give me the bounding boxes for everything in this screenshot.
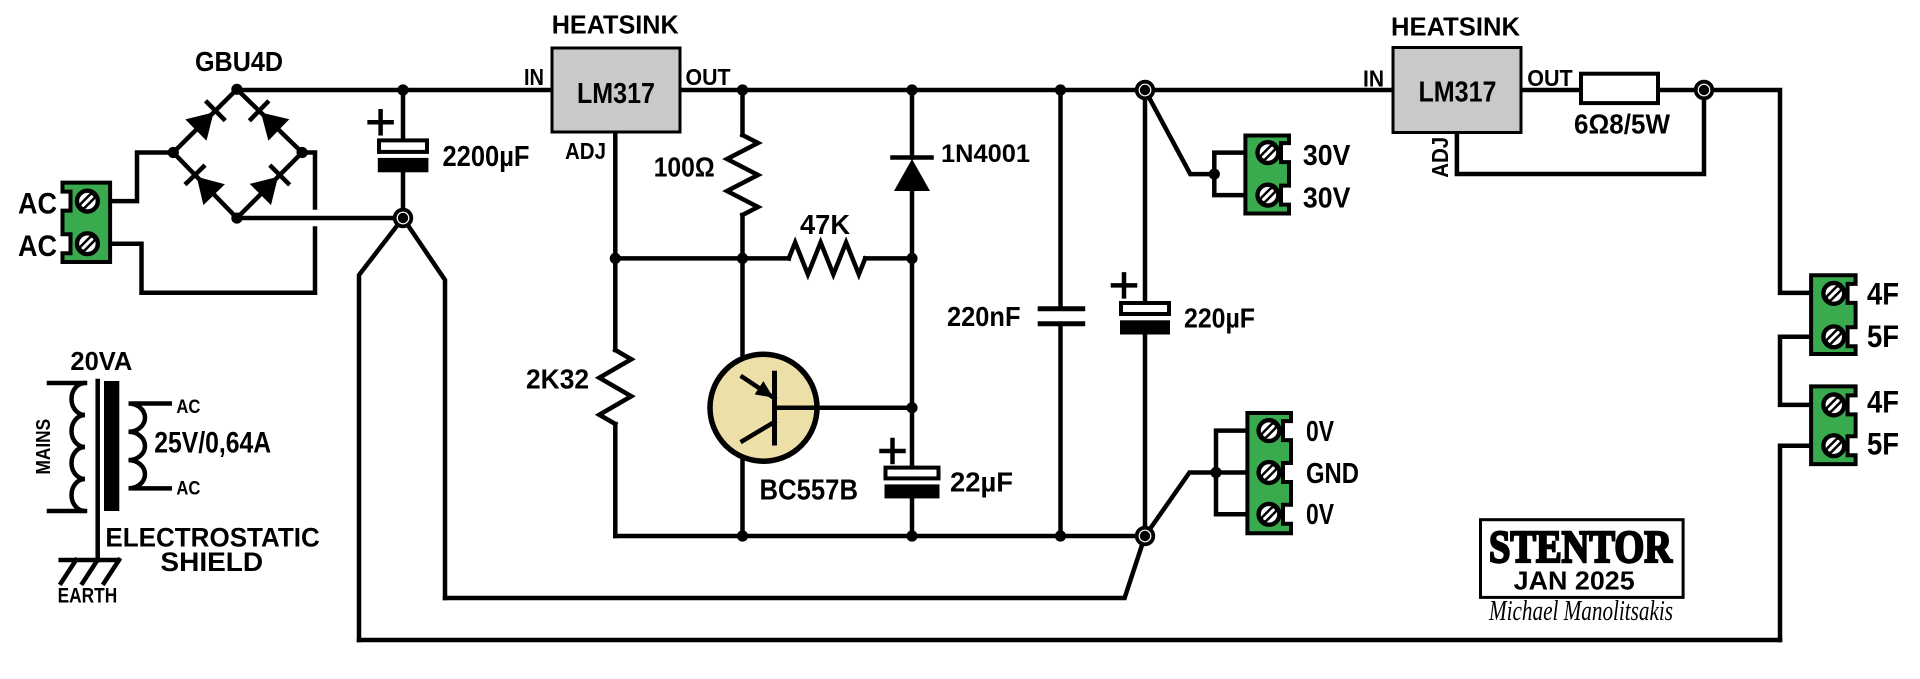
wire: 220nF bottom lead (1058, 326, 1063, 536)
signature Michael Manolitsakis (1488, 596, 1673, 627)
capacitor C4 220µF plates (1120, 303, 1170, 335)
svg-text:4F: 4F (1867, 276, 1899, 312)
title box frame (1481, 520, 1684, 598)
op-amp U1 LM317 body (552, 48, 680, 132)
svg-text:4F: 4F (1867, 383, 1899, 419)
svg-text:GND: GND (1306, 458, 1359, 490)
svg-text:IN: IN (524, 64, 544, 90)
terminal block J3 (0V/GND/0V) (1247, 413, 1291, 533)
capacitor C2 22µF plates (885, 468, 940, 499)
node: bus tap 2200µF (397, 84, 408, 95)
label 4F (J5) (1867, 383, 1899, 419)
svg-text:2K32: 2K32 (526, 364, 589, 395)
node: Q1 base junction (906, 402, 917, 413)
wire: 47K right lead to diode node (865, 256, 912, 261)
wire: Q1 collector drop to ground rail (740, 441, 745, 536)
label GND (1306, 458, 1359, 490)
svg-text:5F: 5F (1867, 425, 1899, 461)
label 47K (800, 209, 850, 240)
label 22µF (950, 467, 1013, 498)
label 220nF (947, 301, 1021, 332)
svg-text:AC: AC (18, 188, 57, 221)
wire: 100Ω top lead (740, 90, 745, 135)
svg-text:220µF: 220µF (1184, 303, 1255, 334)
label HEATSINK (U1) (552, 12, 680, 40)
svg-text:HEATSINK: HEATSINK (552, 12, 680, 40)
svg-text:6Ω8/5W: 6Ω8/5W (1574, 109, 1670, 140)
svg-text:2200µF: 2200µF (443, 141, 530, 173)
svg-text:1N4001: 1N4001 (941, 140, 1030, 168)
node: Q1 collector at ground rail (737, 530, 748, 541)
svg-text:LM317: LM317 (1419, 77, 1497, 109)
transformer T1 primary winding (49, 383, 85, 511)
capacitor C1 2200µF plates (378, 140, 429, 172)
wire: 1N4001 top lead (910, 90, 915, 158)
wire: main V+ bus (bridge output to U1 IN) (237, 88, 552, 93)
svg-text:HEATSINK: HEATSINK (1391, 14, 1521, 42)
transistor Q1 collector lead (743, 422, 775, 441)
capacitor C3 220nF plates (1038, 309, 1086, 324)
label 2200µF (443, 141, 530, 173)
svg-text:30V: 30V (1303, 140, 1351, 172)
label EARTH (58, 585, 118, 608)
transformer T1 secondary winding (129, 404, 170, 489)
label GBU4D (195, 46, 283, 77)
wire: Q1 base node to 22µF top (910, 408, 915, 468)
svg-text:AC: AC (18, 230, 57, 263)
wire: U1 ADJ pin drop (613, 132, 618, 258)
transistor Q1 BC557B body (710, 354, 817, 461)
capacitor C2 22µF plus sign (882, 440, 904, 462)
capacitor C1 2200µF plus sign (370, 111, 392, 133)
label SHIELD (160, 547, 263, 577)
node: 22µF at ground rail (906, 530, 917, 541)
svg-text:EARTH: EARTH (58, 585, 118, 608)
svg-text:STENTOR: STENTOR (1489, 521, 1673, 572)
svg-text:IN: IN (1363, 66, 1384, 92)
wire: diode node down to Q1 base node (910, 258, 915, 407)
svg-text:220nF: 220nF (947, 301, 1021, 332)
node: ADJ rail left junction (610, 253, 621, 264)
wire: 220µF bottom lead (1143, 335, 1148, 537)
node: GND bracket junction (1210, 467, 1221, 478)
label AC (bottom) (18, 230, 57, 263)
node: 220nF at ground rail (1055, 530, 1066, 541)
wire: 6Ω8 resistor to output node (1655, 88, 1704, 93)
wire: 2K32 top lead (613, 258, 618, 350)
wire: AC bottom riser above hop (302, 153, 315, 208)
wire: 30V terminal bracket (1214, 153, 1245, 196)
svg-text:0V: 0V (1306, 416, 1335, 448)
wire: outer bottom rail (359, 638, 1780, 643)
label 220µF (1184, 303, 1255, 334)
wire: ground node to GND terminal bracket (1145, 473, 1247, 537)
node: bus tap 1N4001 (906, 84, 917, 95)
svg-text:MAINS: MAINS (33, 419, 55, 475)
terminal block J2 (30V outputs) (1245, 136, 1289, 214)
wire: inner ground return rail (445, 536, 1145, 598)
label 100Ω (654, 151, 715, 182)
svg-text:OUT: OUT (1527, 65, 1573, 91)
svg-text:JAN 2025: JAN 2025 (1514, 566, 1635, 596)
resistor R1 100Ω (727, 135, 758, 215)
wire: 2200µF top lead (401, 90, 406, 141)
bridge diode D3 (bottom node to left node) (185, 165, 225, 205)
wire: 5F#1 to 4F#2 link (1780, 337, 1815, 405)
label 5F (J4) (1867, 318, 1899, 354)
svg-text:AC: AC (176, 397, 200, 418)
title JAN 2025 (1514, 566, 1635, 596)
ground: EARTH symbol (61, 560, 119, 583)
label 25V/0,64A (154, 427, 271, 460)
label 20VA (70, 348, 132, 376)
svg-text:ADJ: ADJ (1427, 137, 1453, 178)
node: bridge top (+) (231, 84, 242, 95)
wire: 2K32 bottom lead (613, 424, 618, 536)
wire: AC top terminal to bridge left node (108, 153, 173, 202)
transformer T1 core (104, 381, 119, 511)
label 6Ω8/5W (1574, 109, 1670, 140)
wire: 100Ω bottom lead (740, 215, 745, 258)
svg-text:OUT: OUT (686, 64, 732, 90)
wire: 2200µF bottom lead (401, 172, 406, 218)
label 4F (J4) (1867, 276, 1899, 312)
label 0V (top) (1306, 416, 1335, 448)
node: reservoir negative (ring) (395, 210, 412, 227)
node: bridge left AC (168, 147, 179, 158)
svg-text:100Ω: 100Ω (654, 151, 715, 182)
transistor Q1 base bar (772, 371, 777, 446)
transistor Q1 emitter lead with arrow (743, 377, 775, 398)
wire: 1N4001 bottom lead (910, 191, 915, 258)
svg-text:BC557B: BC557B (760, 475, 859, 507)
pin label U1 ADJ (565, 138, 606, 164)
svg-text:0V: 0V (1306, 499, 1335, 531)
diode D5 1N4001 (893, 158, 932, 192)
wire: U1 OUT bus to U2 IN (680, 88, 1393, 93)
bridge diode D4 (bottom node to right node) (250, 165, 290, 205)
wire: 220nF top lead (1058, 90, 1063, 306)
label U1 LM317 (577, 78, 655, 110)
wire: bridge bottom node to reservoir negative node (237, 216, 403, 221)
svg-text:SHIELD: SHIELD (160, 547, 263, 577)
transistor Q1 base lead (775, 405, 913, 410)
bridge diode D2 (right node to top node) (249, 101, 289, 141)
resistor R2 47K (789, 242, 865, 274)
label MAINS (33, 419, 55, 475)
resistor R4 6Ω8/5W body (1581, 74, 1658, 103)
bridge diode D1 (left node to top node) (185, 101, 225, 141)
node: V+ takeoff (ring) (1137, 82, 1154, 99)
wire: reservoir node to inner ground return (right drop) (403, 218, 445, 598)
svg-text:22µF: 22µF (950, 467, 1013, 498)
wire: output node to 4F terminal (right drop) (1704, 90, 1815, 293)
terminal block J4 (4F/5F upper) (1811, 275, 1856, 354)
svg-text:25V/0,64A: 25V/0,64A (154, 427, 271, 460)
resistor R3 2K32 (599, 350, 631, 424)
wire: reservoir node to outer bottom rail (left drop) (359, 218, 403, 640)
pin label U2 IN (1363, 66, 1384, 92)
svg-text:30V: 30V (1303, 183, 1351, 215)
pin label U1 OUT (686, 64, 732, 90)
node: bridge bottom (−) (231, 213, 242, 224)
svg-text:47K: 47K (800, 209, 850, 240)
node: ground rail takeoff (ring) (1137, 528, 1154, 545)
label 1N4001 (941, 140, 1030, 168)
label 2K32 (526, 364, 589, 395)
node: bus tap 220nF (1055, 84, 1066, 95)
node: diode/47K junction (906, 253, 917, 264)
terminal block J5 (4F/5F lower) (1811, 386, 1856, 464)
op-amp U2 LM317 body (1393, 48, 1521, 133)
pin label U2 OUT (1527, 65, 1573, 91)
wire: V+ node to 30V terminal bracket (1145, 90, 1214, 174)
capacitor C4 220µF plus sign (1113, 274, 1135, 296)
wire: inner ground rail (615, 534, 1145, 539)
label U2 LM317 (1419, 77, 1497, 109)
label 30V (top) (1303, 140, 1351, 172)
svg-text:AC: AC (176, 479, 200, 500)
node: bridge right AC (297, 147, 308, 158)
wire: 220µF top lead (1143, 90, 1148, 303)
svg-text:LM317: LM317 (577, 78, 655, 110)
wire: AC bottom terminal to bridge right node (lower run) (108, 229, 315, 293)
wire: Q1 emitter drop from ADJ node (740, 258, 745, 377)
label HEATSINK (U2) (1391, 14, 1521, 42)
label AC (secondary top) (176, 397, 200, 418)
label 5F (J5) (1867, 425, 1899, 461)
label AC (secondary bottom) (176, 479, 200, 500)
svg-text:ADJ: ADJ (565, 138, 606, 164)
label AC (top) (18, 188, 57, 221)
pin label U1 IN (524, 64, 544, 90)
svg-text:20VA: 20VA (70, 348, 132, 376)
node: ADJ/100Ω junction (737, 253, 748, 264)
wire: U2 OUT to 6Ω8 resistor (1521, 88, 1585, 93)
transformer T1 electrostatic shield line (95, 381, 100, 560)
svg-text:GBU4D: GBU4D (195, 46, 283, 77)
wire: ADJ rail (U1 ADJ to 47K) (615, 256, 789, 261)
bridge rectifier GBU4D (diamond arms) (173, 89, 302, 218)
label 30V (bottom) (1303, 183, 1351, 215)
terminal block J1 (AC input) (63, 183, 111, 262)
label BC557B (760, 475, 859, 507)
node: 30V bracket junction (1209, 169, 1220, 180)
wire: 5F#2 to outer bottom rail (1780, 446, 1815, 640)
node: OUT/100Ω tap (737, 84, 748, 95)
node: current-source output (ring) (1696, 82, 1713, 99)
wire: U2 ADJ feedback to output node (1457, 90, 1704, 174)
svg-text:5F: 5F (1867, 318, 1899, 354)
wire: GND terminal bracket (1216, 431, 1247, 515)
pin label U2 ADJ (1427, 137, 1453, 178)
label 0V (bottom) (1306, 499, 1335, 531)
label ELECTROSTATIC (105, 523, 319, 553)
wire: 22µF bottom to ground rail (910, 498, 915, 536)
title STENTOR (1489, 521, 1673, 572)
svg-text:Michael Manolitsakis: Michael Manolitsakis (1488, 596, 1673, 627)
